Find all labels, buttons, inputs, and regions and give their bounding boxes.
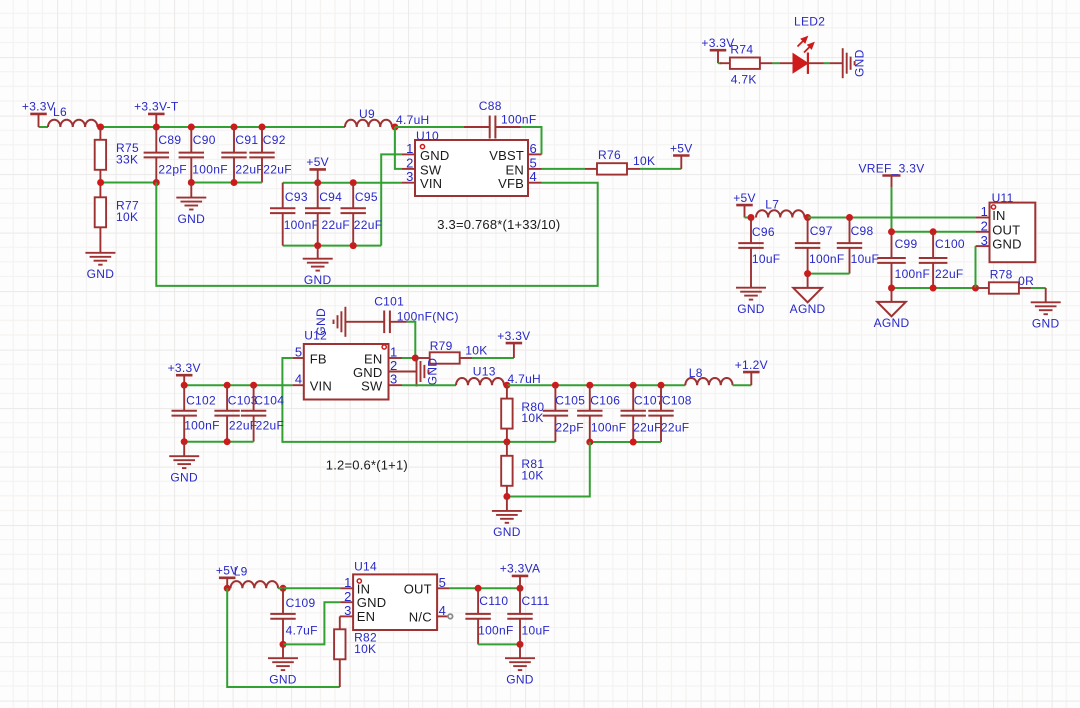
- svg-text:U11: U11: [992, 191, 1014, 205]
- wire L8 to +1.2V flag: [733, 384, 752, 386]
- junction U9/SW/C88: [391, 124, 398, 131]
- wire U11 pin2 stub: [976, 231, 990, 233]
- capacitor C98: [837, 218, 879, 274]
- power flag +3.3VA: [500, 562, 541, 589]
- svg-text:10K: 10K: [521, 468, 543, 482]
- U12 pin names: [310, 351, 383, 393]
- junction C111 gnd: [517, 641, 524, 648]
- svg-text:C109: C109: [286, 596, 316, 610]
- svg-text:R78: R78: [990, 268, 1013, 282]
- power flag +1.2V: [735, 358, 768, 385]
- wire agnd stem: [807, 274, 809, 288]
- svg-text:VFB: VFB: [498, 176, 524, 191]
- svg-text:C94: C94: [319, 190, 342, 204]
- capacitor C99: [877, 232, 930, 288]
- svg-text:L9: L9: [234, 565, 248, 579]
- wire U14 pin1 stub: [340, 587, 353, 589]
- svg-text:C105: C105: [555, 394, 585, 408]
- svg-text:GND: GND: [493, 525, 521, 539]
- svg-text:100nF: 100nF: [478, 624, 514, 638]
- svg-text:SW: SW: [420, 162, 442, 177]
- svg-text:6: 6: [530, 141, 537, 156]
- U11 pin numbers: [981, 204, 988, 248]
- wire pin1 stub: [402, 153, 415, 155]
- svg-text:10K: 10K: [465, 344, 487, 358]
- wire feedback rail R75/R77/C89: [101, 182, 157, 184]
- wire C109 gnd stem: [282, 644, 284, 658]
- wire EN to junction: [402, 357, 412, 359]
- U14 pin names: [357, 581, 432, 624]
- svg-text:C90: C90: [193, 133, 216, 147]
- wire C109 gnd to GND pin: [283, 602, 340, 644]
- wire R74 to LED2: [773, 62, 780, 64]
- junction C91: [231, 124, 238, 131]
- svg-text:R76: R76: [598, 148, 621, 162]
- svg-text:+3.3V: +3.3V: [168, 361, 201, 375]
- svg-text:AGND: AGND: [790, 302, 826, 316]
- svg-text:22uF: 22uF: [322, 218, 351, 232]
- svg-text:N/C: N/C: [409, 609, 432, 624]
- wire +3.3V-T rail: [101, 126, 345, 128]
- svg-text:4.7uH: 4.7uH: [396, 113, 430, 127]
- junction C103: [224, 382, 231, 389]
- IC U12 body: [304, 329, 389, 400]
- svg-text:C95: C95: [355, 190, 378, 204]
- svg-text:+1.2V: +1.2V: [735, 358, 768, 372]
- ground GND: [736, 288, 766, 316]
- ground GND: [85, 253, 115, 281]
- svg-text:VREF_3.3V: VREF_3.3V: [858, 162, 924, 176]
- junction C89: [153, 124, 160, 131]
- svg-text:+3.3V: +3.3V: [497, 329, 530, 343]
- svg-text:LED2: LED2: [794, 14, 825, 28]
- svg-text:C98: C98: [851, 224, 874, 238]
- junction C103 gnd: [224, 438, 231, 445]
- svg-text:C88: C88: [479, 99, 502, 113]
- wire node SW to C88: [395, 126, 464, 128]
- wire pin2 stub: [402, 168, 415, 170]
- power flag +5V: [306, 155, 329, 183]
- wire C101 to EN: [407, 322, 416, 358]
- wire gnd stem: [1045, 288, 1047, 302]
- junction R80/R81/FB: [503, 438, 510, 445]
- wire C88 to VBST pin 6: [521, 127, 542, 154]
- junction C111/flag: [517, 585, 524, 592]
- wire +5V to IN: [278, 587, 340, 589]
- pin N/C no-connect: [437, 615, 448, 617]
- svg-text:C104: C104: [254, 394, 284, 408]
- wire LED2 to GND: [824, 62, 831, 64]
- inductor U13: [456, 365, 541, 387]
- svg-text:10K: 10K: [116, 210, 138, 224]
- svg-text:OUT: OUT: [404, 581, 432, 596]
- svg-text:IN: IN: [992, 208, 1005, 223]
- svg-text:C101: C101: [374, 295, 404, 309]
- svg-text:U14: U14: [354, 560, 377, 574]
- junction C99/VREF: [888, 228, 895, 235]
- capacitor C97: [795, 218, 845, 274]
- svg-text:3: 3: [344, 603, 351, 618]
- capacitor C102: [172, 385, 220, 442]
- svg-text:22uF: 22uF: [935, 267, 964, 281]
- junction C104: [250, 382, 257, 389]
- junction R78/U11 gnd: [972, 285, 979, 292]
- capacitor C111: [507, 588, 550, 644]
- wire gnd rail C102-C104: [184, 441, 253, 443]
- wire pin5 EN to R76: [528, 168, 542, 170]
- wire R79 to +3.3V: [472, 357, 514, 359]
- wire FB stub: [292, 357, 303, 359]
- wire FB loop to divider: [282, 358, 555, 442]
- power flag VREF_3.3V: [858, 162, 924, 188]
- wire C102 gnd stem: [183, 442, 185, 457]
- svg-text:GND: GND: [178, 212, 206, 226]
- wire gnd rail C106-C108: [590, 441, 661, 443]
- ground AGND: [790, 288, 826, 316]
- svg-text:10uF: 10uF: [851, 252, 880, 266]
- resistor R80: [501, 385, 544, 442]
- svg-text:100nF: 100nF: [184, 419, 220, 433]
- svg-text:C110: C110: [479, 594, 508, 608]
- svg-text:22uF: 22uF: [633, 420, 662, 434]
- svg-text:0R: 0R: [1018, 274, 1034, 288]
- node +3.3V input wire: [39, 126, 49, 128]
- junction L9/R82 loop: [224, 585, 231, 592]
- junction C108: [658, 382, 665, 389]
- svg-text:22uF: 22uF: [661, 420, 690, 434]
- junction R81 gnd: [503, 493, 510, 500]
- ground AGND: [874, 302, 910, 330]
- wire U11 pin3 stub: [976, 245, 990, 247]
- svg-text:R79: R79: [430, 339, 453, 353]
- svg-text:C89: C89: [158, 133, 181, 147]
- svg-text:100nF: 100nF: [591, 420, 627, 434]
- svg-text:10uF: 10uF: [522, 624, 551, 638]
- capacitor C95: [341, 183, 383, 246]
- junction C94 gnd: [314, 242, 321, 249]
- junction C109 gnd: [280, 641, 287, 648]
- junction C90: [188, 124, 195, 131]
- U10 pin numbers: [406, 141, 537, 184]
- svg-text:C107: C107: [634, 394, 664, 408]
- junction C102 gnd: [181, 438, 188, 445]
- wire VFB feedback loop: [156, 183, 597, 286]
- capacitor C103: [214, 385, 257, 442]
- power flag +3.3V-T: [134, 100, 179, 127]
- junction C106 gnd: [586, 439, 593, 446]
- IC U10 body: [415, 129, 528, 196]
- svg-text:GND: GND: [992, 237, 1022, 252]
- junction C90/gnd: [188, 179, 195, 186]
- svg-text:GND: GND: [357, 595, 387, 610]
- wire agnd rail: [892, 287, 976, 289]
- power flag +3.3V: [168, 361, 201, 385]
- ground GND (rotated): [843, 48, 867, 78]
- wire +1.2V rail: [507, 384, 685, 386]
- wire +5V to C96/L7: [745, 217, 752, 219]
- capacitor C90: [179, 127, 228, 183]
- junction C95: [350, 179, 357, 186]
- junction C96/L7: [748, 214, 755, 221]
- svg-text:10K: 10K: [354, 642, 376, 656]
- capacitor C92: [249, 127, 292, 183]
- IC U11 body: [990, 191, 1036, 262]
- capacitor C89: [144, 127, 187, 183]
- wire pin3 stub: [402, 182, 415, 184]
- junction C97 agnd: [804, 270, 811, 277]
- svg-text:10K: 10K: [633, 154, 655, 168]
- resistor R74: [720, 43, 773, 87]
- svg-text:22uF: 22uF: [263, 162, 292, 176]
- ground GND: [303, 259, 333, 287]
- wire C97/C98 agnd link: [808, 273, 850, 275]
- inductor L8: [685, 366, 732, 385]
- ground GND: [505, 658, 535, 686]
- U14 pin numbers: [344, 575, 446, 618]
- svg-text:+5V: +5V: [306, 155, 329, 169]
- wire IN rail: [808, 217, 976, 219]
- junction C89/feedback: [153, 179, 160, 186]
- svg-text:C93: C93: [285, 190, 308, 204]
- svg-text:+5V: +5V: [670, 141, 693, 155]
- junction C105: [552, 382, 559, 389]
- wire R82 to EN: [340, 615, 353, 617]
- junction R75/R77: [97, 179, 104, 186]
- svg-text:EN: EN: [506, 162, 524, 177]
- svg-text:GND: GND: [1032, 317, 1060, 331]
- junction EN/C101/R79: [412, 355, 419, 362]
- capacitor C93: [270, 183, 319, 246]
- resistor R79: [415, 339, 487, 364]
- capacitor C107: [621, 385, 664, 442]
- svg-text:C92: C92: [263, 133, 286, 147]
- capacitor C91: [221, 127, 264, 183]
- wire OUT rail +3.3VA: [450, 587, 520, 589]
- svg-text:GND: GND: [737, 302, 765, 316]
- svg-text:4.7K: 4.7K: [731, 73, 757, 87]
- inductor L9: [231, 565, 279, 589]
- wire gnd rail C110/C111: [478, 643, 520, 645]
- IC U14 body: [353, 560, 437, 630]
- junction C91/gnd: [231, 179, 238, 186]
- junction C106: [586, 382, 593, 389]
- svg-text:VIN: VIN: [420, 176, 442, 191]
- svg-text:AGND: AGND: [874, 316, 910, 330]
- svg-text:+3.3V: +3.3V: [22, 100, 55, 114]
- svg-text:10K: 10K: [521, 411, 543, 425]
- svg-text:2: 2: [406, 155, 413, 170]
- svg-text:100nF: 100nF: [895, 267, 931, 281]
- wire SW to U13: [402, 384, 456, 386]
- capacitor C104: [241, 385, 284, 442]
- wire +3.3V rail to VIN: [184, 384, 292, 386]
- svg-text:EN: EN: [357, 609, 375, 624]
- svg-text:3: 3: [406, 169, 413, 184]
- svg-text:1.2=0.6*(1+1): 1.2=0.6*(1+1): [326, 457, 408, 472]
- resistor R81: [501, 442, 544, 497]
- wire pin6 stub: [528, 153, 542, 155]
- svg-text:R74: R74: [730, 43, 753, 57]
- capacitor C110: [465, 588, 513, 644]
- svg-text:GND: GND: [506, 672, 534, 686]
- svg-text:3.3=0.768*(1+33/10): 3.3=0.768*(1+33/10): [437, 217, 560, 232]
- svg-text:+3.3V-T: +3.3V-T: [134, 100, 179, 114]
- wire OUT rail: [892, 231, 976, 233]
- inductor L7: [756, 198, 805, 218]
- wire EN stub: [389, 357, 403, 359]
- inductor L6: [48, 105, 98, 127]
- wire +3.3V to R74: [718, 62, 722, 64]
- junction L7/C97: [804, 214, 811, 221]
- svg-text:C96: C96: [752, 225, 775, 239]
- svg-text:C99: C99: [895, 237, 918, 251]
- wire gnd link to R81: [507, 442, 590, 497]
- LED LED2: [780, 14, 826, 74]
- wire gnd rail C93-C95: [283, 245, 382, 247]
- junction C107 gnd: [630, 439, 637, 446]
- wire SW stub: [389, 384, 403, 386]
- svg-text:GND: GND: [420, 148, 450, 163]
- svg-text:22uF: 22uF: [235, 162, 264, 176]
- wire SW pin2 riser: [395, 127, 402, 169]
- wire C90 gnd stem: [190, 183, 192, 198]
- svg-text:GND: GND: [170, 470, 198, 484]
- svg-text:22pF: 22pF: [158, 162, 187, 176]
- svg-text:22uF: 22uF: [354, 218, 383, 232]
- capacitor C105: [543, 385, 586, 442]
- svg-text:1: 1: [981, 204, 988, 219]
- power flag +3.3V: [22, 100, 55, 127]
- svg-text:22uF: 22uF: [256, 419, 285, 433]
- svg-text:U9: U9: [359, 107, 375, 121]
- junction C92: [259, 124, 266, 131]
- resistor R78: [976, 268, 1035, 294]
- svg-text:C111: C111: [522, 594, 550, 608]
- capacitor C109: [270, 588, 317, 644]
- ground GND: [169, 456, 199, 484]
- svg-text:OUT: OUT: [992, 222, 1020, 237]
- svg-text:U13: U13: [473, 365, 496, 379]
- U12 pin numbers: [295, 345, 398, 387]
- wire agnd stem: [891, 288, 893, 302]
- svg-text:L6: L6: [53, 105, 67, 119]
- capacitor C94: [305, 183, 350, 246]
- resistor R77: [95, 183, 139, 253]
- svg-text:GND: GND: [853, 49, 867, 77]
- junction L6/R75: [97, 124, 104, 131]
- svg-text:4.7uF: 4.7uF: [286, 624, 318, 638]
- wire U14 pin2 stub: [340, 601, 353, 603]
- svg-text:C91: C91: [235, 133, 258, 147]
- svg-text:GND: GND: [269, 672, 297, 686]
- ground GND: [1031, 302, 1061, 330]
- ground GND: [176, 198, 206, 226]
- junction C100: [930, 228, 937, 235]
- svg-text:100nF(NC): 100nF(NC): [397, 310, 459, 324]
- svg-text:100nF: 100nF: [284, 218, 320, 232]
- svg-text:C106: C106: [590, 394, 620, 408]
- wire U12 GND pin: [389, 371, 417, 373]
- wire VREF to OUT: [891, 188, 893, 232]
- power flag +5V: [733, 191, 756, 218]
- svg-text:4.7uH: 4.7uH: [508, 372, 542, 386]
- svg-text:2: 2: [981, 219, 988, 234]
- capacitor C96: [738, 218, 780, 288]
- svg-text:C102: C102: [186, 394, 216, 408]
- svg-text:GND: GND: [304, 273, 332, 287]
- svg-text:U10: U10: [416, 129, 439, 143]
- capacitor C100: [919, 232, 965, 288]
- svg-text:3: 3: [981, 233, 988, 248]
- svg-text:1: 1: [406, 141, 413, 156]
- resistor R75: [95, 127, 139, 183]
- wire pin4 VFB stub: [528, 182, 542, 184]
- junction C110: [475, 585, 482, 592]
- svg-text:22pF: 22pF: [555, 420, 584, 434]
- capacitor C108: [648, 385, 692, 442]
- svg-text:L8: L8: [689, 366, 703, 380]
- ground GND (rotated): [314, 307, 346, 337]
- junction C107: [630, 382, 637, 389]
- wire C93-group gnd stem: [317, 246, 319, 259]
- wire R82 pullup loop: [227, 588, 340, 687]
- svg-text:L7: L7: [765, 198, 779, 212]
- wire U14 pin5 stub: [437, 587, 450, 589]
- wire R76 to +5V: [640, 168, 681, 170]
- U11 pin names: [992, 208, 1022, 252]
- junction +5V flag/C94: [314, 179, 321, 186]
- wire gnd pin: [830, 62, 843, 64]
- capacitor C101 with GND: [345, 295, 458, 334]
- capacitor C106: [577, 385, 626, 442]
- junction C100 agnd: [930, 285, 937, 292]
- junction C95 gnd: [350, 242, 357, 249]
- svg-text:100nF: 100nF: [192, 162, 228, 176]
- svg-text:10uF: 10uF: [752, 252, 781, 266]
- wire EN to R76: [542, 168, 586, 170]
- wire R81 gnd stem: [506, 497, 508, 511]
- wire GND pin1 to cap gnd rail: [381, 154, 402, 245]
- power flag +5V: [670, 141, 693, 169]
- capacitor C88: [464, 99, 537, 139]
- svg-text:SW: SW: [361, 378, 383, 393]
- svg-text:C97: C97: [810, 224, 833, 238]
- svg-text:GND: GND: [87, 267, 115, 281]
- junction C98: [846, 214, 853, 221]
- svg-text:+3.3VA: +3.3VA: [500, 562, 541, 576]
- svg-text:2: 2: [344, 589, 351, 604]
- junction U13/R80: [503, 382, 510, 389]
- ground GND: [492, 511, 522, 539]
- power flag +5V: [216, 564, 239, 589]
- wire U11 GND pin drop: [975, 246, 977, 288]
- junction L9/C109: [280, 585, 287, 592]
- resistor R76: [585, 148, 655, 175]
- wire gnd rail C90-C92: [191, 182, 262, 184]
- svg-text:100nF: 100nF: [809, 252, 845, 266]
- svg-text:33K: 33K: [116, 152, 138, 166]
- svg-text:+5V: +5V: [733, 191, 756, 205]
- U10 pin names: [420, 148, 524, 191]
- wire R78 to GND: [1031, 287, 1045, 289]
- junction C102/flag: [181, 382, 188, 389]
- svg-text:FB: FB: [310, 351, 327, 366]
- junction C99 agnd: [888, 285, 895, 292]
- svg-text:VIN: VIN: [310, 378, 332, 393]
- svg-text:100nF: 100nF: [501, 113, 537, 127]
- wire C111 gnd stem: [519, 644, 521, 658]
- wire VIN stub: [292, 384, 303, 386]
